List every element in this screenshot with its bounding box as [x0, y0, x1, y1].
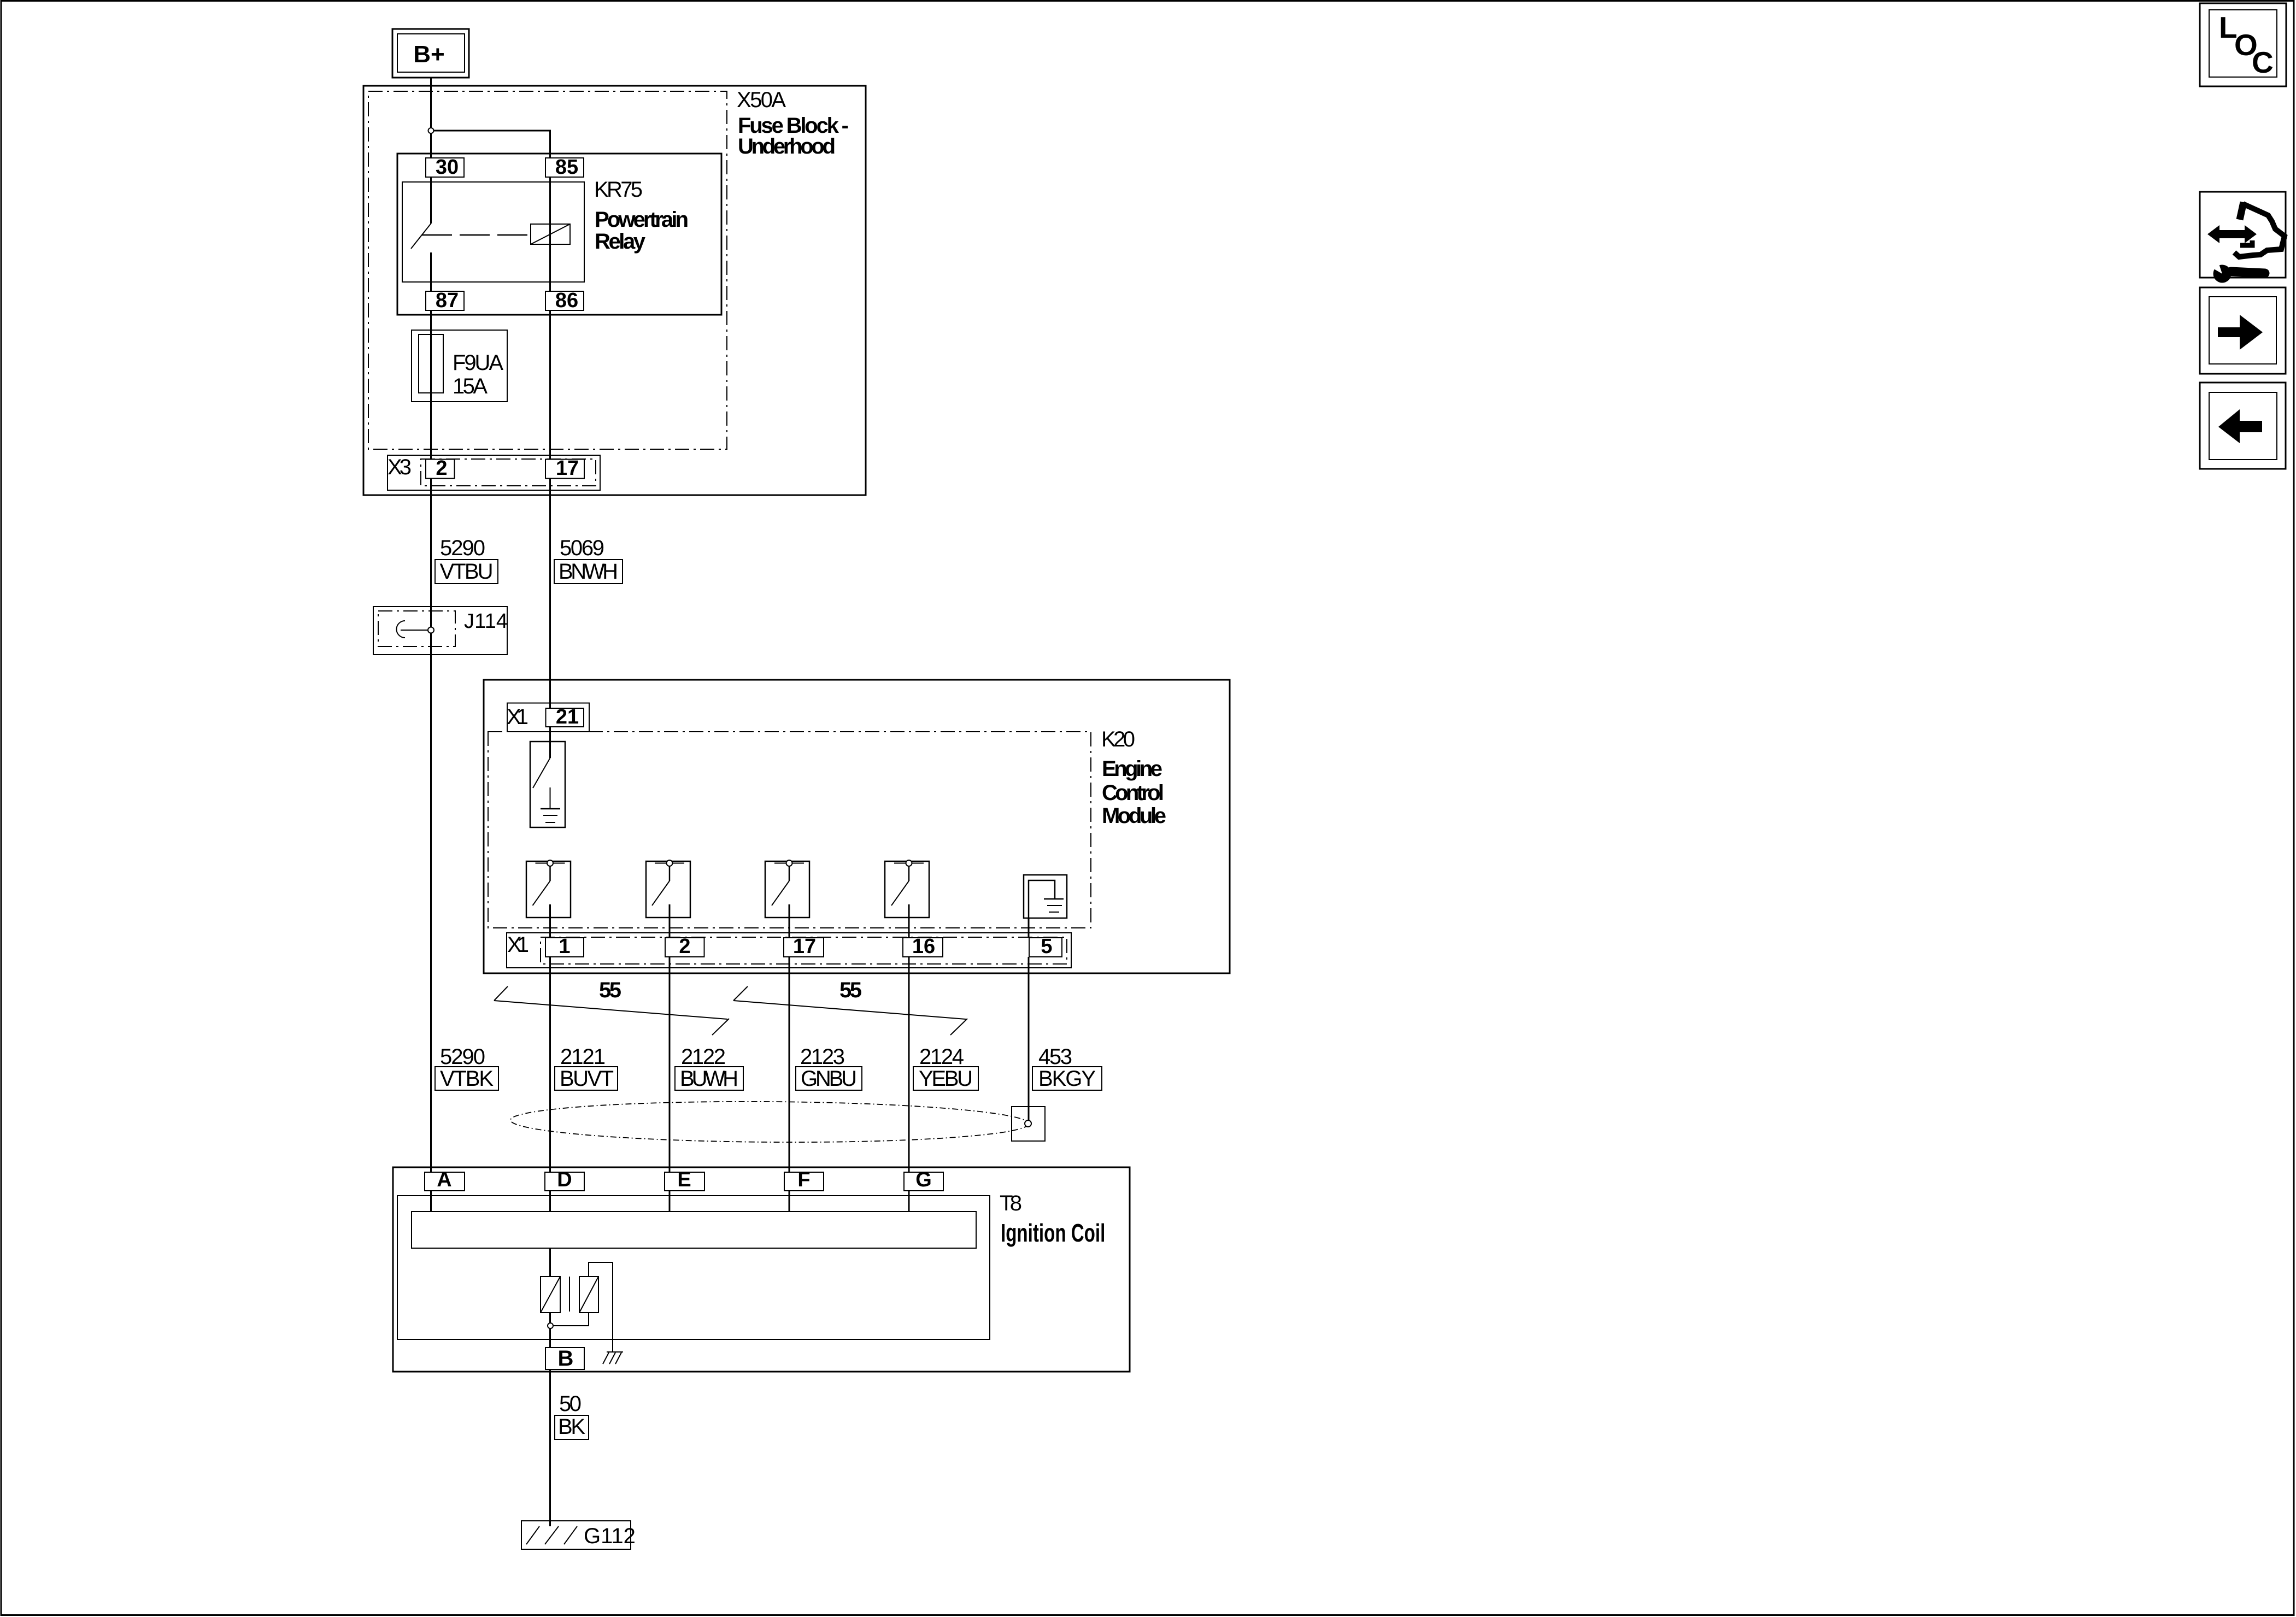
- svg-text:Underhood: Underhood: [738, 134, 836, 158]
- relay KR75 outer box: [397, 154, 721, 315]
- ECM pin 1: [545, 935, 584, 958]
- wire bus bar to primary winding: [549, 1248, 551, 1277]
- splice pack J114 outer box: [373, 607, 507, 655]
- svg-text:Engine: Engine: [1102, 757, 1162, 781]
- label F9UA 15A: [453, 351, 503, 398]
- ECM pin 21: [546, 705, 584, 728]
- svg-text:453: 453: [1038, 1045, 1072, 1069]
- splice pack J114 dash-dot box: [378, 611, 455, 646]
- wires from drivers to X1 bottom pins: [550, 904, 1029, 937]
- svg-text:85: 85: [555, 156, 578, 179]
- svg-text:2: 2: [436, 457, 447, 480]
- wire ECM pin 21 into internal switch: [549, 727, 551, 758]
- T8 pin F: [784, 1168, 824, 1191]
- X3 pin 2: [426, 457, 455, 480]
- B+ battery feed symbol: [392, 29, 469, 78]
- wire label 2122 BUWH: [681, 1045, 726, 1069]
- relay actuation dashed link: [422, 234, 531, 236]
- svg-text:YEBU: YEBU: [919, 1067, 973, 1091]
- T8 pin G: [904, 1168, 943, 1191]
- svg-text:Ignition Coil: Ignition Coil: [1001, 1220, 1105, 1247]
- J114 connector symbol: [397, 621, 434, 638]
- svg-text:Module: Module: [1102, 804, 1166, 828]
- svg-text:BUWH: BUWH: [680, 1067, 738, 1091]
- ECM pin 2: [665, 935, 704, 958]
- ECM low-side driver box for pin 21: [530, 742, 565, 827]
- fuse block X50A dash-dot boundary: [368, 91, 727, 449]
- svg-text:X1: X1: [507, 933, 529, 957]
- svg-text:X3: X3: [387, 455, 412, 479]
- svg-text:K20: K20: [1101, 727, 1135, 751]
- svg-text:17: 17: [556, 457, 579, 480]
- label X1 bottom: [507, 933, 529, 957]
- svg-text:BK: BK: [558, 1415, 585, 1439]
- T8 pin E: [665, 1168, 704, 1191]
- wire from B+ down to relay pin 30: [430, 78, 432, 158]
- svg-text:J114: J114: [464, 610, 508, 633]
- wire color box BNWH: [554, 560, 623, 584]
- svg-text:5: 5: [1041, 935, 1052, 958]
- ECM output driver 3: [765, 860, 809, 918]
- svg-text:B: B: [558, 1346, 574, 1371]
- ECM X1 bottom connector row: [507, 933, 1071, 968]
- wires from ECM pins down to ignition coil: [550, 957, 1029, 1172]
- back arrow icon: [2200, 383, 2286, 469]
- X3 pin 17: [545, 457, 584, 480]
- svg-text:B+: B+: [413, 41, 444, 68]
- ECM pin 17: [784, 935, 824, 958]
- svg-text:E: E: [677, 1168, 691, 1191]
- svg-text:16: 16: [912, 935, 935, 958]
- svg-text:5290: 5290: [440, 1045, 485, 1069]
- label T8 Ignition Coil: [1000, 1191, 1105, 1247]
- fuse F9UA holder box: [412, 330, 507, 402]
- relay pin 85: [545, 156, 584, 179]
- svg-text:C: C: [2252, 45, 2274, 79]
- svg-text:KR75: KR75: [594, 178, 643, 202]
- ECM internal dash-dot boundary: [488, 732, 1091, 928]
- svg-text:Powertrain: Powertrain: [595, 208, 689, 232]
- ECM pin 5: [1029, 935, 1062, 958]
- svg-text:5069: 5069: [560, 536, 604, 560]
- relay pin 86: [545, 289, 584, 312]
- relay inner mechanism box: [402, 182, 584, 282]
- label K20 Engine Control Module: [1101, 727, 1166, 828]
- svg-text:86: 86: [555, 289, 578, 312]
- relay coil wire pin 85 to 86: [549, 177, 551, 291]
- svg-text:BKGY: BKGY: [1038, 1067, 1096, 1091]
- svg-text:30: 30: [436, 156, 459, 179]
- T8 pin B: [545, 1346, 584, 1371]
- svg-text:55: 55: [599, 978, 621, 1002]
- svg-text:87: 87: [436, 289, 459, 312]
- wire 5069 BNWH from X3-17 to ECM X1-21: [549, 478, 551, 708]
- forward arrow icon: [2200, 287, 2286, 374]
- svg-text:17: 17: [793, 935, 816, 958]
- link junction to secondary winding bottom: [553, 1313, 589, 1326]
- ECM X1-21 connector box: [507, 703, 589, 732]
- svg-text:50: 50: [559, 1392, 582, 1416]
- svg-text:2124: 2124: [919, 1045, 964, 1069]
- T8 bus bar box: [412, 1212, 976, 1248]
- wire branch to relay pin 85: [431, 131, 550, 158]
- ECM X1 bottom dash-dot strip: [541, 937, 1067, 964]
- relay switch output wire to pin 87: [430, 252, 432, 291]
- relay switch blade: [411, 224, 431, 249]
- fuse F9UA element: [419, 334, 443, 393]
- ground G112: [521, 1521, 636, 1549]
- wire color box VTBU: [435, 560, 498, 584]
- primary winding: [541, 1277, 560, 1313]
- svg-text:2121: 2121: [560, 1045, 606, 1069]
- relay pin 30: [426, 156, 464, 179]
- svg-text:F: F: [797, 1168, 810, 1191]
- label 55 left: [599, 978, 621, 1002]
- shield drain box: [1012, 1107, 1045, 1141]
- svg-text:G112: G112: [584, 1524, 636, 1548]
- secondary winding: [579, 1277, 598, 1313]
- wire primary to pin B: [549, 1313, 551, 1348]
- svg-text:Relay: Relay: [595, 230, 646, 254]
- shield loop ellipse: [510, 1100, 1029, 1144]
- connector repair icon box: [2200, 192, 2286, 283]
- svg-text:A: A: [437, 1168, 451, 1191]
- svg-text:2122: 2122: [681, 1045, 726, 1069]
- wire label 50: [559, 1392, 582, 1416]
- wire label 2123 GNBU: [800, 1045, 845, 1069]
- pin stubs from A D E F G into bus bar: [431, 1191, 909, 1212]
- svg-text:VTBU: VTBU: [440, 560, 494, 584]
- relay coil box: [531, 224, 570, 244]
- svg-text:GNBU: GNBU: [801, 1067, 857, 1091]
- svg-text:X50A: X50A: [737, 88, 786, 112]
- svg-text:2: 2: [679, 935, 690, 958]
- secondary winding to internal chassis ground: [589, 1262, 613, 1352]
- wire relay 87 down to X3 pin 2: [430, 310, 432, 459]
- ECM K20 outer box: [484, 680, 1230, 973]
- junction at coil common: [548, 1323, 553, 1328]
- label J114: [464, 610, 508, 633]
- svg-text:T8: T8: [1000, 1191, 1022, 1215]
- svg-text:2123: 2123: [800, 1045, 845, 1069]
- svg-text:BNWH: BNWH: [559, 560, 618, 584]
- svg-text:1: 1: [559, 935, 570, 958]
- LOC legend box: [2200, 3, 2286, 86]
- T8 inner boundary box: [397, 1196, 990, 1339]
- svg-text:BUVT: BUVT: [560, 1067, 614, 1091]
- svg-text:21: 21: [556, 705, 579, 728]
- wire relay 86 down to X3 pin 17: [549, 310, 551, 459]
- wire 5290 VTBU from X3-2 to J114 and on to T8 pin A: [430, 478, 432, 1172]
- relay switch input wire from pin 30: [430, 177, 432, 224]
- svg-text:VTBK: VTBK: [440, 1067, 494, 1091]
- label 55 right: [839, 978, 862, 1002]
- label X3: [387, 455, 412, 479]
- svg-text:15A: 15A: [453, 374, 488, 398]
- svg-text:F9UA: F9UA: [453, 351, 503, 375]
- wire break symbol left: [494, 986, 729, 1035]
- wire label 453 BKGY: [1038, 1045, 1072, 1069]
- chassis ground symbol inside T8: [603, 1352, 623, 1364]
- connector X3 dash-dot strip: [421, 459, 596, 486]
- svg-text:D: D: [557, 1168, 572, 1191]
- label X1 top: [507, 705, 529, 729]
- connector X3 row: [387, 455, 600, 490]
- label X50A: [737, 88, 849, 158]
- ignition coil T8 outer box: [393, 1167, 1130, 1372]
- svg-text:G: G: [915, 1168, 932, 1191]
- T8 pin A: [425, 1168, 465, 1191]
- wire label 5290: [440, 536, 485, 560]
- fuse block X50A outer box: [363, 86, 866, 495]
- svg-text:Control: Control: [1102, 781, 1164, 805]
- wire color box BK: [555, 1415, 589, 1439]
- ECM internal ground box: [1024, 875, 1067, 918]
- svg-text:5290: 5290: [440, 536, 485, 560]
- svg-text:X1: X1: [507, 705, 529, 729]
- wire label 5290 VTBK: [440, 1045, 485, 1069]
- T8 pin D: [545, 1168, 584, 1191]
- wire label 2121 BUVT: [560, 1045, 606, 1069]
- ECM output driver 1: [526, 860, 571, 918]
- transformer core line: [569, 1277, 570, 1312]
- ECM output driver 2: [646, 860, 690, 918]
- shield drain junction: [1025, 1120, 1031, 1127]
- wire label 2124 YEBU: [919, 1045, 964, 1069]
- wire 50 BK from pin B to G112: [549, 1369, 551, 1526]
- svg-text:55: 55: [839, 978, 862, 1002]
- label KR75 Powertrain Relay: [594, 178, 689, 254]
- ECM output driver 4: [885, 860, 929, 918]
- wire label 5069: [560, 536, 604, 560]
- wire break symbol right: [733, 986, 967, 1035]
- junction on B+ feed: [428, 128, 434, 133]
- ECM pin 16: [903, 935, 943, 958]
- relay pin 87: [426, 289, 464, 312]
